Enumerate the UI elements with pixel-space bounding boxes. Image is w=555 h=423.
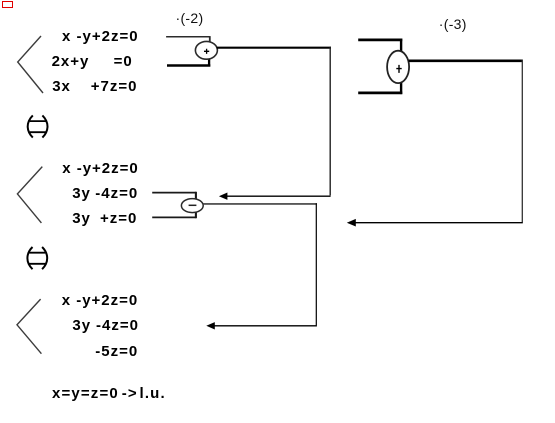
node S3 equation line 1 — [62, 294, 139, 307]
arrowhead into S2 row2 — [219, 193, 228, 200]
wire connector up to subtractor — [195, 212, 197, 218]
red box marker top-left — [2, 1, 13, 8]
minus sign in subtractor — [189, 204, 197, 206]
equivalence double-arrow symbol 2 — [27, 247, 47, 269]
equivalence double-arrow symbol 1 — [28, 115, 48, 137]
brace bracket system 3 — [17, 299, 41, 354]
node S3 equation line 2 — [72, 319, 91, 332]
wire connector up to adder 2 — [400, 81, 402, 94]
brace bracket system 2 — [17, 167, 42, 223]
wire vertical drop x=522 — [521, 60, 523, 223]
brace bracket system 1 — [18, 36, 43, 93]
arrowhead into S2 row3 — [347, 219, 356, 227]
plus sign in adder 2 — [396, 65, 401, 73]
arrowhead into S3 — [206, 322, 215, 329]
node S2 equation line 2 — [72, 187, 91, 200]
wire arrow shaft into S2 row3 — [355, 222, 523, 224]
wire row marker right-group top — [358, 39, 402, 42]
wire vertical drop x=330 — [329, 47, 331, 196]
wire row marker S1 row2 — [167, 64, 210, 67]
node S1 equation line 1 — [62, 30, 139, 43]
wire vertical drop x=316 — [315, 203, 317, 325]
op-amp adder ellipse 1 — [195, 41, 217, 59]
op-amp adder ellipse 2 — [387, 51, 409, 83]
node S1 equation line 3 — [52, 80, 71, 93]
wire row marker S2 row2 — [152, 192, 196, 194]
wire connector down to adder 1 — [209, 36, 211, 42]
wire arrow shaft into S3 — [214, 325, 317, 327]
node result text x=y=z=0 -> l.u. — [52, 387, 119, 400]
wire adder2 output right — [409, 59, 523, 62]
wire row marker S1 row1 — [166, 36, 210, 38]
node S1 equation line 2 — [52, 55, 90, 68]
label multiplier (-3) — [439, 18, 467, 31]
node S3 equation line 3 — [95, 345, 138, 358]
plus sign in adder 1 — [204, 49, 209, 54]
node S2 equation line 1 — [62, 162, 139, 175]
wire connector up to adder 1 — [208, 59, 210, 67]
wire subtractor output right — [203, 203, 317, 205]
op-amp subtractor ellipse — [181, 199, 203, 213]
wire row marker right-group bottom — [358, 92, 402, 95]
wire arrow shaft into S2 row2 — [227, 195, 331, 197]
wire connector down to adder 2 — [400, 39, 402, 52]
wire connector down to subtractor — [195, 192, 197, 200]
node S2 equation line 3 — [72, 212, 91, 225]
wire row marker S2 row3 — [152, 216, 196, 218]
label multiplier (-2) — [176, 12, 204, 25]
wire adder1 output right — [217, 47, 331, 49]
